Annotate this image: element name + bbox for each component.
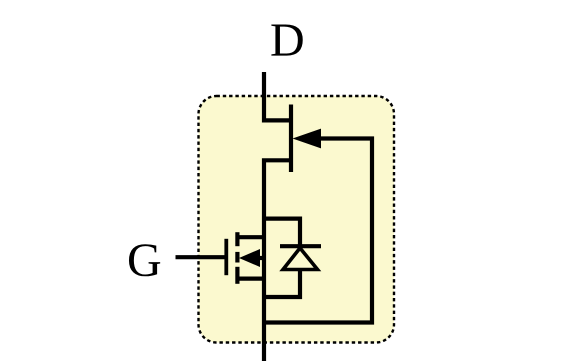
transistor M1 (MOSFET) gate lead wire from G xyxy=(176,255,227,259)
svg-text:D: D xyxy=(270,14,305,67)
transistor J1 gate arrowhead xyxy=(293,129,322,149)
svg-text:G: G xyxy=(127,234,162,287)
wire: M1 source contact xyxy=(237,277,264,281)
package outline (dashed rounded box, pale yellow fill) xyxy=(199,96,395,343)
transistor J1 (JFET) channel bar xyxy=(289,105,293,173)
transistor M1 gate bar xyxy=(224,239,228,275)
wire: JFET gate feedback to source rail xyxy=(264,139,372,323)
wire: JFET source lead down through MOSFET to bottom S terminal xyxy=(264,160,291,361)
transistor M1 body arrowhead xyxy=(239,249,260,267)
diode D1 triangle (open) xyxy=(283,248,318,270)
transistor M1 channel segment (source) xyxy=(235,267,239,284)
transistor M1 channel segment (body) xyxy=(235,252,239,263)
diode D1 cathode bar xyxy=(280,244,321,248)
wire: drain terminal D to JFET drain xyxy=(264,72,291,120)
wire: branch M1 drain to diode cathode xyxy=(264,219,300,246)
transistor M1 channel segment (drain) xyxy=(235,232,239,246)
wire: M1 drain contact xyxy=(237,235,264,239)
wire: branch M1 source to diode anode xyxy=(264,269,300,297)
wire: M1 body tie xyxy=(258,256,264,260)
